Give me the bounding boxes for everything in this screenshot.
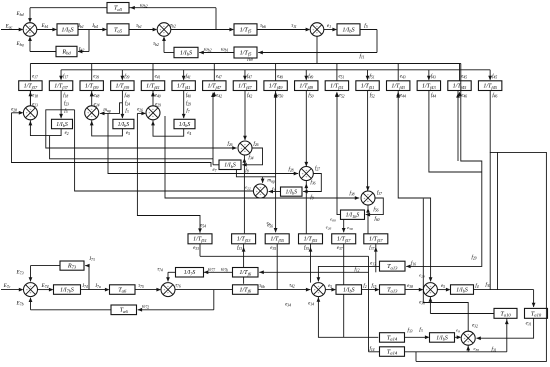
svg-text:+: +	[25, 28, 27, 32]
svg-text:+: +	[256, 189, 258, 193]
wire e-col e39	[91, 64, 93, 81]
summing junction JC	[146, 106, 160, 120]
svg-text:+: +	[429, 285, 431, 289]
svg-text:e34: e34	[285, 303, 291, 308]
wire up to T_a10 box1	[506, 318, 508, 352]
T_a6 feedback tap	[213, 290, 215, 310]
box 1/T_f47	[233, 81, 256, 91]
svg-text:ω72: ω72	[142, 305, 149, 310]
svg-text:e38: e38	[407, 284, 413, 289]
svg-text:e13: e13	[370, 261, 376, 266]
summing junction JJ	[311, 283, 325, 297]
svg-text:e52: e52	[339, 94, 345, 99]
box 1/I_bS unit1	[52, 119, 73, 128]
svg-text:e42: e42	[216, 94, 222, 99]
box 1/T_f6 main	[233, 285, 259, 295]
box R_73	[60, 261, 84, 270]
svg-text:f47: f47	[247, 74, 252, 79]
svg-text:+: +	[29, 108, 31, 112]
svg-text:f2: f2	[363, 284, 366, 289]
wire JE bottom to row3 box4	[305, 181, 307, 234]
svg-text:f14: f14	[369, 347, 374, 352]
svg-text:1/Tf39: 1/Tf39	[85, 84, 99, 90]
svg-text:+: +	[29, 114, 31, 118]
feedback line f_11	[258, 52, 377, 54]
svg-text:+: +	[148, 111, 150, 115]
wire f-col f39	[121, 70, 123, 80]
svg-text:e50: e50	[277, 94, 283, 99]
svg-text:f35: f35	[304, 246, 309, 251]
wire JL top route up-left	[423, 199, 468, 332]
svg-text:+: +	[467, 333, 469, 337]
wire R_bd to S1 bottom	[30, 51, 56, 53]
loop JG to box6	[366, 198, 384, 215]
wire into T_a14 fb	[369, 351, 380, 353]
svg-text:f33: f33	[237, 246, 242, 251]
svg-text:+: +	[240, 146, 242, 150]
box 1/T_f51 row3	[188, 234, 212, 244]
box 1/T_f43	[417, 81, 440, 91]
wire S3 bottom	[316, 36, 318, 63]
summing junction S2	[157, 23, 171, 37]
svg-text:1/Tf47: 1/Tf47	[238, 84, 252, 90]
wire e-col e17	[29, 92, 33, 97]
svg-text:e44: e44	[400, 94, 406, 99]
svg-text:+: +	[259, 193, 261, 197]
wire e-col e47	[213, 64, 215, 81]
svg-text:τ76: τ76	[175, 283, 181, 288]
box 1/I_bS unit4	[219, 160, 241, 170]
f-col14 to stair y172	[429, 91, 482, 173]
svg-text:I73: I73	[88, 257, 94, 262]
svg-text:e37: e37	[337, 246, 343, 251]
wire to 1/I_bS fb	[199, 52, 234, 54]
svg-text:+: +	[302, 172, 304, 176]
svg-text:f9: f9	[310, 196, 313, 201]
wire V_f into JG	[165, 116, 359, 198]
box 1/I_7bS	[54, 285, 81, 295]
box6 out left and up to box11	[337, 93, 341, 215]
summing junction JA	[23, 106, 37, 120]
box 1/T_f49	[264, 81, 287, 91]
box T_a14 main	[380, 333, 405, 343]
wire f-col into box	[60, 91, 62, 119]
svg-text:+: +	[312, 28, 314, 32]
svg-text:f48: f48	[125, 94, 130, 99]
e-col15 down	[457, 91, 459, 162]
svg-text:+: +	[305, 175, 307, 179]
wire f-col into box	[183, 91, 185, 119]
box 1/T_f5 feedback	[234, 47, 257, 58]
svg-text:e43: e43	[400, 74, 406, 79]
wire e-col e45	[459, 64, 461, 81]
wire Vb H1 into JD	[46, 110, 237, 148]
wire row3 box2 up from main row	[243, 244, 245, 284]
svg-text:f37: f37	[369, 246, 374, 251]
wire out to right into T_a10 no2	[474, 289, 534, 291]
svg-text:f41: f41	[186, 74, 191, 79]
bus line 2	[61, 69, 490, 71]
svg-text:f17: f17	[63, 74, 68, 79]
svg-text:τ74: τ74	[157, 268, 163, 273]
loop JD to box4	[242, 148, 262, 165]
summing junction JG	[361, 191, 375, 205]
svg-text:τ75: τ75	[138, 284, 144, 289]
box 1/T_f55 row3	[265, 234, 289, 244]
svg-text:f52: f52	[370, 94, 375, 99]
box 1/IS bottom	[430, 333, 455, 343]
svg-text:e32: e32	[472, 324, 478, 329]
wire JD bottom to row3 box2	[243, 155, 245, 233]
svg-text:e40: e40	[155, 94, 161, 99]
svg-text:1/Tf57: 1/Tf57	[369, 237, 383, 243]
svg-text:1/Tf45: 1/Tf45	[453, 84, 467, 90]
svg-text:f16: f16	[411, 261, 416, 266]
loop to junction bottom	[153, 120, 184, 136]
svg-text:f29: f29	[471, 256, 476, 261]
bus1 start corner	[29, 64, 31, 81]
svg-text:+: +	[152, 114, 154, 118]
svg-text:+: +	[464, 337, 466, 341]
m_ag input JF	[236, 170, 275, 177]
svg-text:+: +	[429, 291, 431, 295]
svg-text:e41: e41	[155, 74, 161, 79]
svg-text:+: +	[163, 288, 165, 292]
svg-text:1/Tf37: 1/Tf37	[24, 84, 38, 90]
svg-text:+: +	[367, 200, 369, 204]
svg-text:τ42: τ42	[289, 283, 295, 288]
loop to junction bottom	[30, 120, 61, 135]
box 1/I_bS bottom2	[451, 285, 474, 295]
box T_a13 feedback	[380, 261, 406, 271]
svg-text:e49: e49	[277, 74, 283, 79]
wire f-col8 into JD	[244, 91, 246, 141]
svg-text:1/Tf57: 1/Tf57	[337, 237, 351, 243]
box5 out into JF	[269, 191, 281, 193]
box 1/T_f45	[448, 81, 471, 91]
box T_a6 feedback	[111, 305, 137, 315]
box R_bd	[56, 46, 77, 56]
svg-text:+: +	[91, 108, 93, 112]
svg-text:1/Tf51: 1/Tf51	[361, 84, 375, 90]
svg-text:f24: f24	[125, 102, 130, 107]
box T_a10 no2	[525, 308, 548, 318]
svg-text:1/IbS: 1/IbS	[224, 163, 236, 169]
svg-text:f36: f36	[310, 181, 315, 186]
svg-text:+: +	[244, 143, 246, 147]
wire R_73 to JH top	[31, 265, 61, 267]
svg-text:e48: e48	[93, 94, 99, 99]
box 1/T_f37	[49, 81, 72, 91]
svg-text:1/Tf47: 1/Tf47	[207, 84, 221, 90]
summing junction S1	[23, 23, 37, 37]
svg-text:e30: e30	[419, 301, 425, 306]
box 1/I_bS unit5	[281, 187, 303, 196]
wire V3 from JF output	[75, 110, 254, 191]
svg-text:1/Tf49: 1/Tf49	[299, 84, 313, 90]
svg-text:e5: e5	[441, 284, 445, 289]
box 1/T_f53 row3	[232, 234, 256, 244]
wire ecol1 segment	[29, 91, 31, 106]
svg-text:mag: mag	[103, 108, 110, 113]
svg-text:1/IbS: 1/IbS	[180, 49, 192, 56]
svg-text:+: +	[316, 31, 318, 35]
summing junction JF	[253, 184, 267, 198]
svg-text:f8: f8	[245, 169, 248, 174]
svg-text:+: +	[317, 291, 319, 295]
svg-text:+: +	[29, 31, 31, 35]
svg-text:+: +	[317, 285, 319, 289]
wire V_d H4 into JE	[108, 113, 298, 173]
svg-text:f29: f29	[186, 102, 191, 107]
summing junction JB	[85, 106, 99, 120]
box T_a6 main	[110, 285, 136, 295]
svg-text:+: +	[91, 114, 93, 118]
svg-text:+: +	[167, 291, 169, 295]
svg-text:+: +	[163, 31, 165, 35]
box4 output left and up to box7	[213, 164, 219, 166]
wire f-col f43	[428, 70, 430, 80]
svg-text:f50: f50	[308, 94, 313, 99]
box 1/I_bS out	[337, 24, 360, 35]
svg-text:1/Tf51: 1/Tf51	[193, 237, 207, 243]
wire f-col f45	[489, 70, 491, 80]
svg-text:+: +	[367, 193, 369, 197]
svg-text:e28: e28	[11, 107, 17, 112]
box 1/T_f43	[387, 81, 410, 91]
svg-text:+: +	[30, 285, 32, 289]
svg-text:+: +	[305, 168, 307, 172]
wire row3 box5 bottom	[343, 244, 345, 337]
wire T_a10 no2 down to JL	[476, 318, 533, 338]
svg-text:f3: f3	[125, 109, 128, 114]
svg-text:e46: e46	[461, 94, 467, 99]
svg-text:1/IbS: 1/IbS	[456, 287, 468, 293]
svg-text:1/IbS: 1/IbS	[179, 122, 191, 128]
svg-text:+: +	[316, 24, 318, 28]
box 1/T_f51	[356, 81, 379, 91]
svg-text:1/Tf41: 1/Tf41	[146, 84, 160, 90]
svg-text:e35: e35	[270, 246, 276, 251]
svg-text:f34: f34	[248, 156, 253, 161]
svg-text:e7: e7	[212, 168, 216, 173]
box 1/T_f57 row3	[364, 234, 388, 244]
wire row3 box3 down to main row	[276, 244, 278, 290]
svg-text:e45: e45	[461, 74, 467, 79]
svg-text:e18: e18	[32, 94, 38, 99]
box 1/I_bS unit3	[174, 119, 195, 128]
summing junction JL	[461, 331, 475, 345]
summing junction S3	[310, 23, 324, 37]
wire v368 down	[368, 256, 370, 352]
svg-text:+: +	[467, 340, 469, 344]
wire f-col f41	[183, 70, 185, 80]
svg-text:1/Tf41: 1/Tf41	[177, 84, 191, 90]
svg-text:+: +	[152, 108, 154, 112]
box 1/T_f55 row3	[299, 234, 323, 244]
svg-text:1/IbS: 1/IbS	[342, 26, 354, 33]
svg-text:f7: f7	[186, 109, 189, 114]
wire V_e to row3 box1	[137, 113, 200, 232]
svg-text:1/IbS: 1/IbS	[61, 26, 73, 33]
svg-text:+: +	[163, 24, 165, 28]
svg-text:e17: e17	[32, 74, 38, 79]
svg-text:+: +	[26, 111, 28, 115]
svg-text:f45: f45	[492, 74, 497, 79]
svg-text:1/IbS: 1/IbS	[56, 122, 68, 128]
wire e-col e41	[152, 64, 154, 81]
wire f-col f47	[244, 70, 246, 80]
svg-text:e2: e2	[65, 131, 69, 136]
svg-text:+: +	[30, 291, 32, 295]
svg-text:τ6b: τ6b	[259, 284, 265, 289]
svg-text:+: +	[363, 196, 365, 200]
svg-text:f38: f38	[349, 192, 354, 197]
svg-text:e39: e39	[93, 74, 99, 79]
svg-text:f12: f12	[354, 268, 359, 273]
svg-text:f42: f42	[247, 94, 252, 99]
svg-text:ω77: ω77	[208, 268, 215, 273]
feedback tap to R_bd	[88, 30, 90, 52]
svg-text:e29: e29	[155, 103, 161, 108]
svg-text:1/IbS: 1/IbS	[285, 190, 297, 196]
svg-text:e14: e14	[308, 302, 314, 307]
svg-text:f46: f46	[492, 94, 497, 99]
box T_a10 no1	[494, 308, 517, 318]
node e_5c	[437, 289, 449, 291]
svg-text:f4: f4	[475, 284, 478, 289]
box 1/T_f6 feedback	[233, 268, 259, 278]
box 1/T_f51	[325, 81, 348, 91]
wire T_a14 fb out to right	[405, 351, 507, 353]
box 1/I_1bS unit6	[341, 210, 365, 219]
svg-text:mag: mag	[267, 179, 274, 184]
svg-text:1/Tf37: 1/Tf37	[54, 84, 68, 90]
svg-text:e51: e51	[338, 74, 344, 79]
svg-text:+: +	[314, 288, 316, 292]
f-col16 staircase right	[416, 91, 546, 362]
wire e-col e51	[336, 64, 338, 81]
m_ag input to JB	[100, 103, 123, 114]
bus line 1	[30, 63, 460, 65]
svg-text:f40: f40	[186, 94, 191, 99]
wire f-col12 into JG	[367, 91, 369, 191]
svg-text:f18: f18	[63, 94, 68, 99]
box 1/T_f57 row3	[332, 234, 356, 244]
wire bottom stub	[415, 352, 417, 361]
JL bottom wire	[467, 345, 469, 352]
svg-text:1/IbS: 1/IbS	[118, 122, 130, 128]
e-col13 route into JK top	[398, 91, 430, 282]
box6 bottom to row3 box5	[343, 220, 345, 233]
box 1/T_f41	[172, 81, 195, 91]
svg-text:e31: e31	[526, 322, 532, 327]
wire e-col e49	[275, 64, 277, 81]
wire stair y158	[50, 136, 213, 159]
svg-text:f51: f51	[370, 74, 375, 79]
wire row3 box4 from below	[310, 244, 312, 283]
box 1/T_f49	[295, 81, 318, 91]
tap up to R_73	[88, 266, 90, 290]
summing junction JD	[238, 141, 252, 155]
svg-text:+: +	[244, 150, 246, 154]
wire f-col f17	[60, 70, 62, 80]
svg-text:f31: f31	[491, 347, 496, 352]
wire T_a6 fb to JH bottom	[31, 309, 112, 311]
wire V2 feedback e28	[12, 113, 212, 167]
svg-text:f43: f43	[431, 74, 436, 79]
svg-text:f56: f56	[373, 208, 378, 213]
svg-text:e26: e26	[137, 107, 143, 112]
svg-text:f27: f27	[315, 167, 320, 172]
svg-text:e33: e33	[193, 246, 199, 251]
summing junction JH	[24, 283, 38, 297]
wire row3 box1 to bus256	[199, 244, 201, 256]
wire from bus1 corner into T_a13 fb	[406, 64, 482, 267]
wire e-col e43	[397, 64, 399, 81]
svg-text:1/IbS: 1/IbS	[436, 335, 448, 341]
wire f-col f51	[367, 70, 369, 80]
svg-text:f49: f49	[308, 74, 313, 79]
svg-text:f23: f23	[64, 102, 69, 107]
summing junction JK	[423, 283, 437, 297]
box 1/T_f5 forward	[234, 24, 257, 35]
input e_26 to JC	[137, 112, 144, 114]
svg-text:f26: f26	[227, 142, 232, 147]
svg-text:1/Tf43: 1/Tf43	[422, 84, 436, 90]
f-col16 lower branch	[489, 152, 491, 289]
box 1/T_f45	[478, 81, 501, 91]
box 1/I_bS gen1	[57, 24, 78, 35]
wire 1/I_7S out to JI top	[168, 271, 176, 273]
svg-text:e5: e5	[126, 131, 130, 136]
wire row3 box6 bottom	[375, 244, 377, 272]
box 1/T_f37	[19, 81, 42, 91]
wire feedback top	[129, 7, 216, 9]
box 1/I_bS unit2	[113, 119, 134, 128]
svg-text:+: +	[167, 285, 169, 289]
svg-text:ω7b: ω7b	[221, 268, 228, 273]
svg-text:f33: f33	[407, 329, 412, 334]
svg-text:f39: f39	[124, 74, 129, 79]
svg-text:1/Tf45: 1/Tf45	[483, 84, 497, 90]
svg-text:e47: e47	[216, 74, 222, 79]
svg-text:1/Tf39: 1/Tf39	[116, 84, 130, 90]
wire f-col into box	[121, 91, 123, 119]
svg-text:f3: f3	[419, 328, 422, 333]
box 1/I_7S	[176, 268, 204, 278]
svg-text:I7a: I7a	[94, 284, 100, 289]
junction top tap	[215, 29, 217, 31]
svg-text:1/Tf55: 1/Tf55	[304, 237, 318, 243]
wire hang from stair to bottom row	[497, 152, 499, 289]
svg-text:f26: f26	[253, 142, 258, 147]
JJ bottom wire to T_a14	[318, 297, 378, 338]
box T_a14 feedback	[380, 347, 405, 357]
svg-text:+: +	[426, 288, 428, 292]
svg-text:+: +	[29, 24, 31, 28]
svg-text:f60: f60	[374, 217, 379, 222]
svg-text:1/Tf43: 1/Tf43	[391, 84, 405, 90]
svg-text:1/Tf51: 1/Tf51	[330, 84, 344, 90]
JJ top input e_13	[318, 266, 379, 281]
svg-text:1/IbS: 1/IbS	[343, 287, 355, 293]
loop JE to box5	[303, 174, 321, 192]
svg-text:+: +	[259, 186, 261, 190]
bus line 256	[200, 255, 369, 257]
box 1/T_f39	[111, 81, 134, 91]
wire to S2 bottom	[164, 52, 174, 54]
